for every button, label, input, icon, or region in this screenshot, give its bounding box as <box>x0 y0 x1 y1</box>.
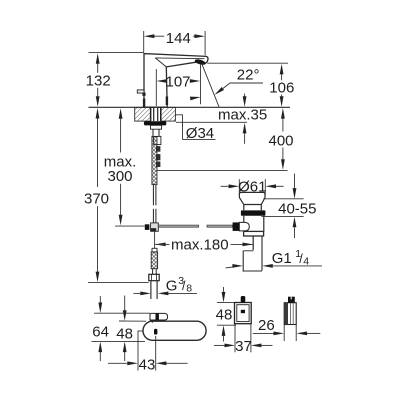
hose centerline below tee <box>154 231 156 248</box>
deck underside reference line (max35) <box>176 121 247 123</box>
aerator <box>194 58 206 66</box>
svg-text:48: 48 <box>216 306 233 323</box>
tailpipe upper <box>252 236 254 250</box>
dim max.300 <box>119 108 123 119</box>
22deg leader <box>223 83 263 89</box>
hose below nut <box>150 281 152 299</box>
svg-text:Ø61: Ø61 <box>238 179 266 196</box>
mounting nut black band <box>144 121 166 125</box>
svg-text:107: 107 <box>165 73 190 90</box>
shank in deck hole <box>150 107 152 121</box>
dim 370 <box>96 108 100 119</box>
svg-text:144: 144 <box>166 30 191 47</box>
svg-text:48: 48 <box>116 325 133 342</box>
svg-text:4: 4 <box>303 255 309 267</box>
22deg arc <box>190 95 201 100</box>
label G3/8 <box>134 292 141 294</box>
svg-text:40-55: 40-55 <box>278 201 316 218</box>
faucet top reference line <box>89 52 145 54</box>
drain flange <box>239 192 265 210</box>
svg-text:8: 8 <box>186 283 192 295</box>
svg-text:max.180: max.180 <box>171 236 229 253</box>
drain rubber seal <box>241 210 266 215</box>
dim 400 <box>281 108 285 119</box>
dim 37 <box>214 344 225 346</box>
37 extension lines <box>234 324 236 353</box>
dim 43 <box>137 331 139 371</box>
dim max.35 <box>244 94 246 97</box>
dim 144 <box>143 31 145 52</box>
deck hatched section left <box>135 107 151 121</box>
svg-text:106: 106 <box>269 79 294 96</box>
horizontal actuator rod right <box>207 225 233 227</box>
rod clip <box>154 136 161 144</box>
tailpipe step <box>243 250 253 252</box>
G3/8 connector cap <box>152 248 157 252</box>
dim 48 left <box>119 320 146 322</box>
spout bevel line <box>155 57 204 60</box>
drain body <box>243 216 245 232</box>
deck hatched section right <box>161 107 175 121</box>
svg-text:G: G <box>166 278 178 295</box>
drain collar <box>244 231 264 236</box>
370 bottom reference line <box>88 281 149 283</box>
battery box inner dash <box>241 310 245 313</box>
drain boss nose <box>239 222 249 231</box>
threaded rod hatched <box>152 137 157 185</box>
dim 40-55 <box>263 198 303 200</box>
drain boss black block <box>233 222 240 231</box>
G3/8 nut <box>149 274 159 280</box>
deck top line <box>89 106 291 108</box>
battery box side view <box>284 303 296 325</box>
side view top tab <box>288 297 295 303</box>
control unit pill <box>143 321 206 340</box>
hose lower segment <box>152 209 154 223</box>
dim max.180 <box>252 236 254 249</box>
hose-end reference line (400 bottom) <box>157 169 288 171</box>
dim 48 right <box>217 302 235 304</box>
side view extension lines <box>283 325 285 342</box>
dim 64 <box>94 312 150 314</box>
svg-text:43: 43 <box>139 356 156 373</box>
svg-text:max.35: max.35 <box>218 107 267 124</box>
tee fitting dark bottom <box>151 228 156 231</box>
svg-text:37: 37 <box>235 338 252 355</box>
dim 106 <box>280 64 284 75</box>
svg-text:22°: 22° <box>237 67 260 84</box>
max300 bottom reference line <box>115 225 145 227</box>
rod nut block 1 <box>156 146 160 152</box>
spout outlet reference line <box>207 62 288 64</box>
G3/8 neck <box>152 269 154 275</box>
G3/8 threaded section <box>151 252 157 269</box>
dim 132 <box>96 53 100 64</box>
svg-text:300: 300 <box>107 168 132 185</box>
tailpipe threaded end <box>242 251 244 272</box>
faucet body outline <box>144 54 208 108</box>
sensor tab on left edge <box>137 90 144 93</box>
tee fitting black left block <box>145 224 150 230</box>
mounting nut body <box>151 125 162 129</box>
dim Ø61 <box>238 179 240 195</box>
label Ø34 leader <box>175 115 215 140</box>
stream angle line 22deg <box>202 64 219 107</box>
dim 107 <box>155 69 157 106</box>
tee fitting body <box>151 223 159 231</box>
svg-text:64: 64 <box>92 323 109 340</box>
rod nut block 2 <box>156 154 160 160</box>
pill slot <box>154 329 157 335</box>
pill top tab <box>150 313 168 320</box>
label G1 1/4 <box>226 266 234 269</box>
battery box front view <box>235 303 252 324</box>
base seal ticks <box>143 99 145 108</box>
threaded rod plain top <box>152 129 154 136</box>
svg-text:370: 370 <box>84 190 109 207</box>
svg-text:400: 400 <box>268 133 293 150</box>
svg-text:Ø34: Ø34 <box>186 125 214 142</box>
svg-text:26: 26 <box>258 317 275 334</box>
48 tick <box>138 330 144 332</box>
battery box top tab <box>241 296 246 303</box>
hose upper segment <box>152 185 154 206</box>
svg-text:132: 132 <box>86 72 111 89</box>
horizontal actuator rod left <box>158 225 198 227</box>
svg-text:G1: G1 <box>272 250 292 267</box>
spout chamfer line <box>155 58 166 67</box>
